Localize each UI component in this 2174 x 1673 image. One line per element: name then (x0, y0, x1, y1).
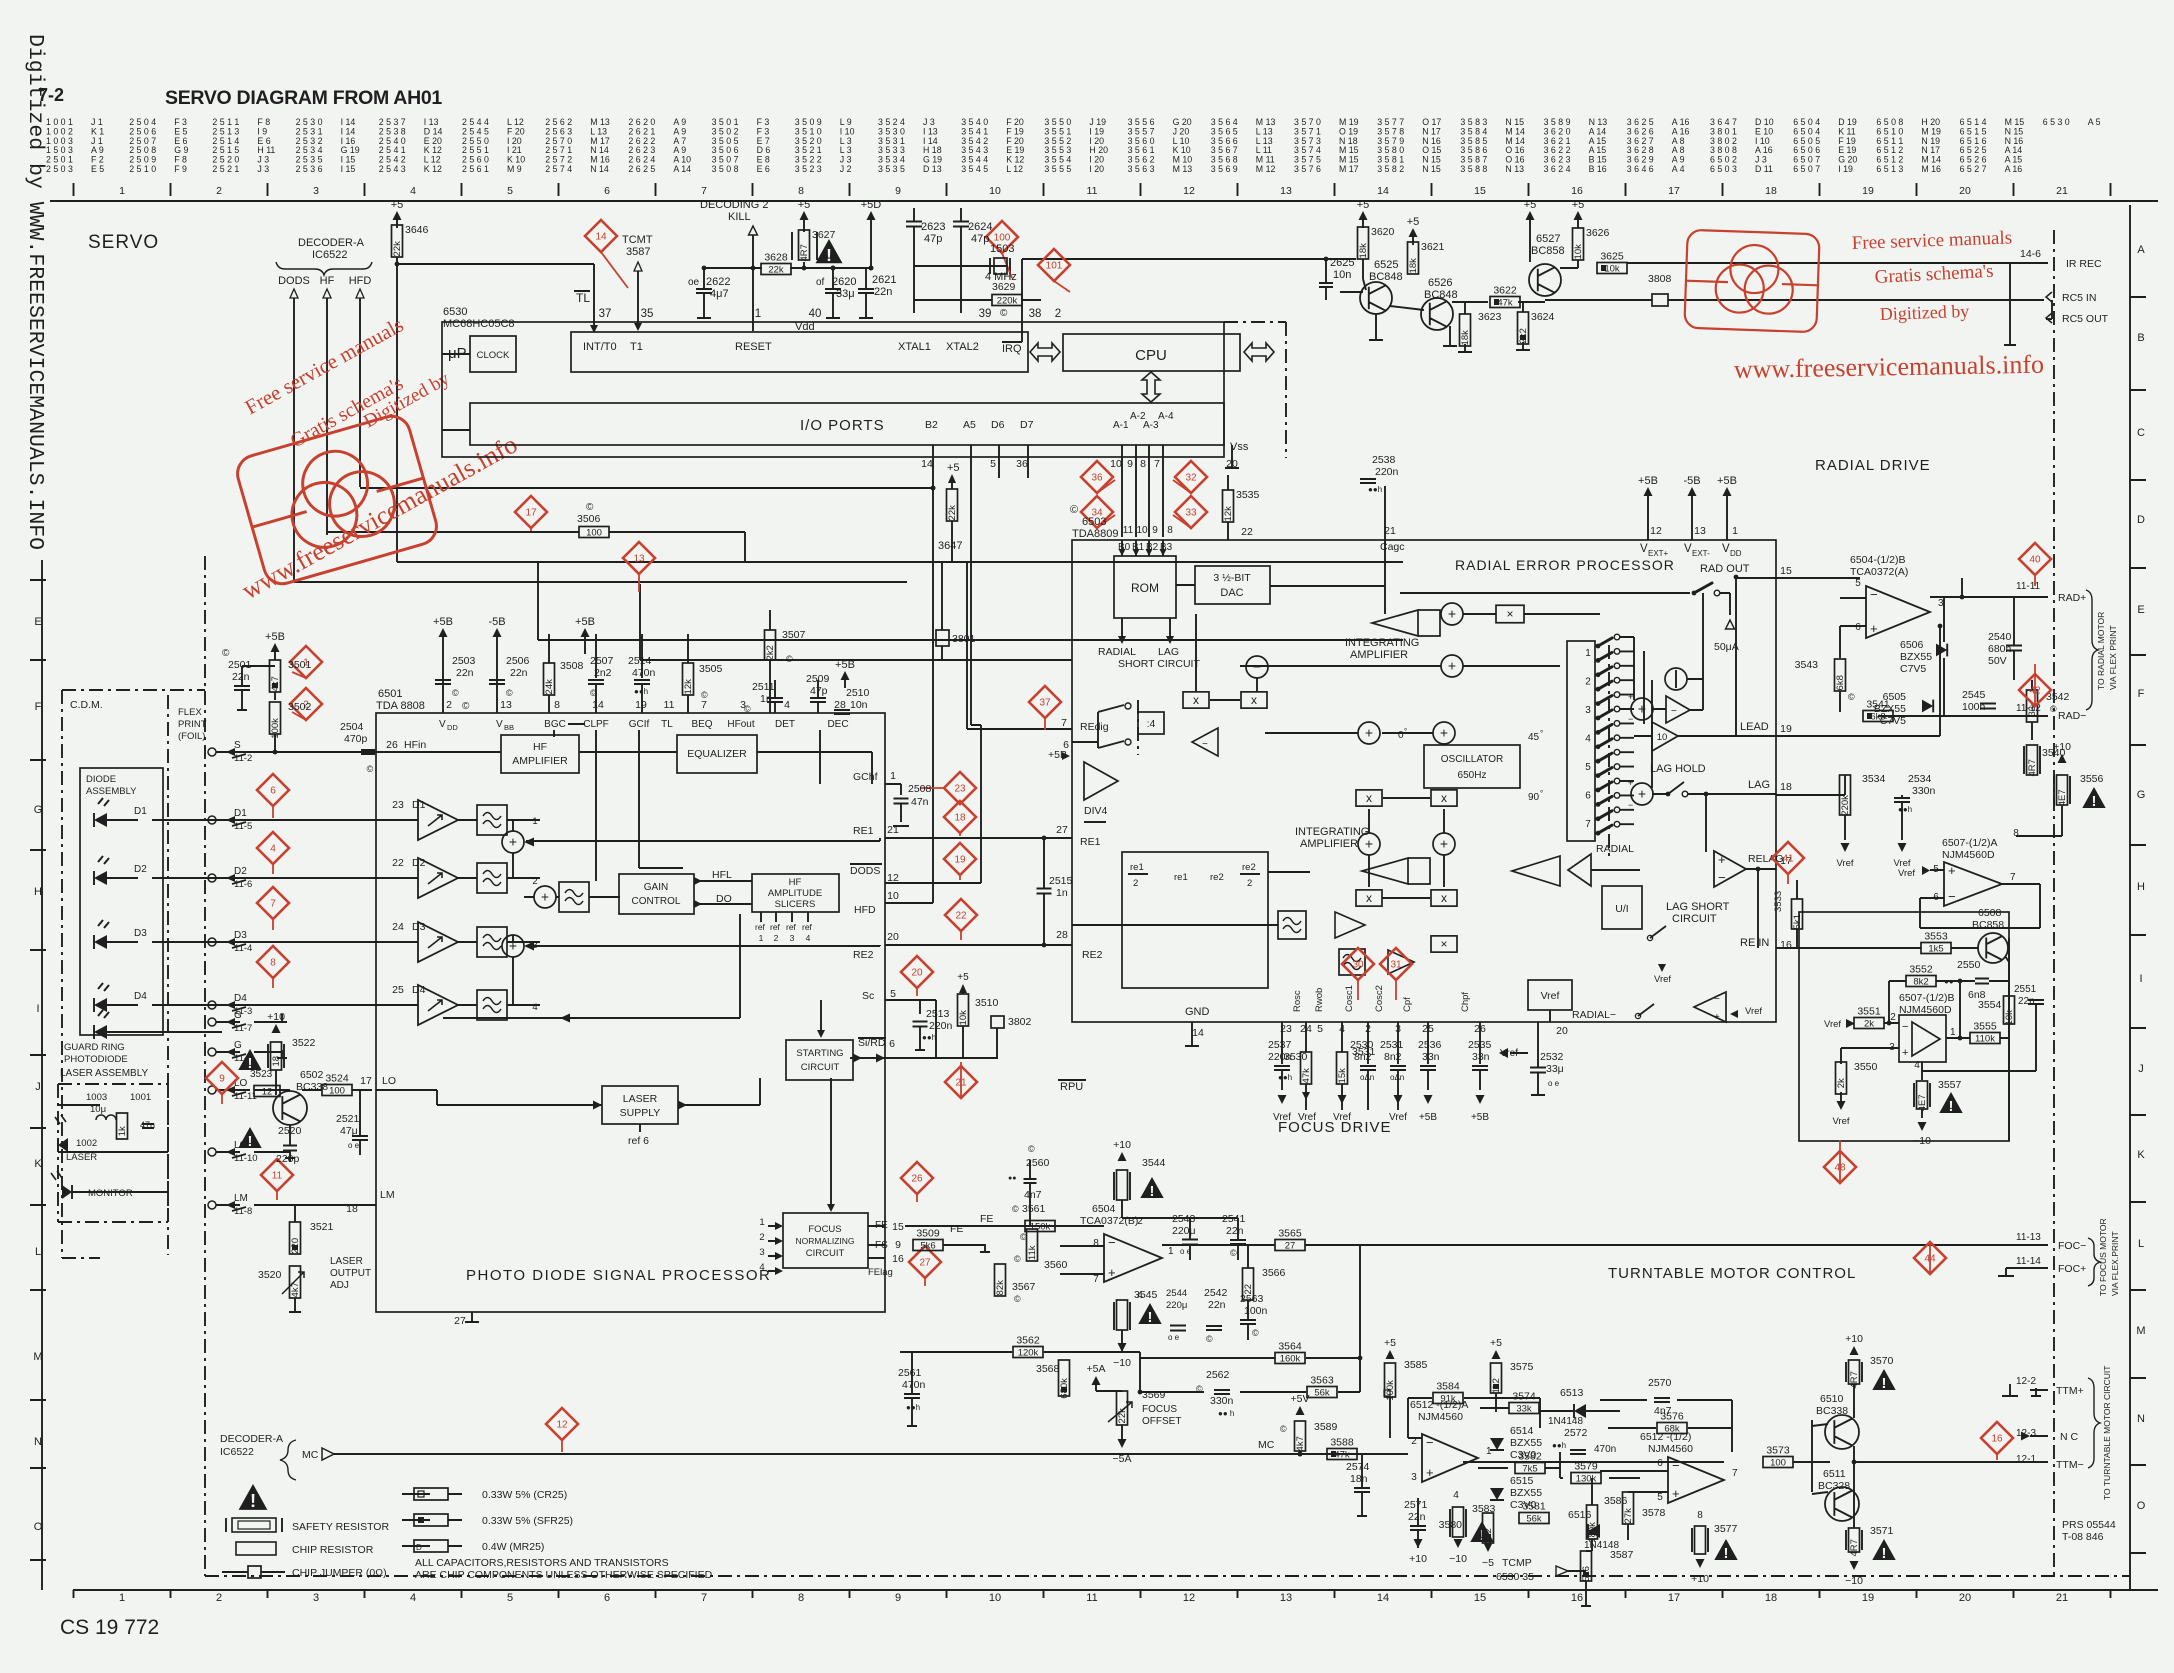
svg-text:+: + (509, 834, 517, 850)
svg-text:2511: 2511 (752, 681, 775, 693)
svg-text:2560: 2560 (1026, 1157, 1050, 1169)
svg-text:11-11: 11-11 (2016, 581, 2041, 592)
svg-text:3581: 3581 (1522, 1501, 1546, 1513)
svg-text:D: D (416, 1543, 422, 1552)
svg-text:©: © (222, 648, 230, 659)
svg-text:7: 7 (270, 899, 276, 910)
svg-text:RC5 IN: RC5 IN (2062, 292, 2096, 304)
svg-text:2: 2 (1055, 308, 1061, 320)
svg-text:6515: 6515 (1510, 1475, 1534, 1487)
svg-text:11-14: 11-14 (2016, 1256, 2041, 1267)
svg-text:+: + (1638, 786, 1646, 802)
svg-text:47n: 47n (911, 796, 929, 808)
svg-text:10: 10 (1110, 458, 1122, 470)
svg-text:16: 16 (1991, 1434, 2003, 1445)
svg-text:1003: 1003 (86, 1092, 107, 1103)
svg-text:16: 16 (1571, 1592, 1583, 1604)
svg-text:3802: 3802 (1008, 1016, 1032, 1028)
svg-text:3587: 3587 (626, 246, 650, 258)
svg-text:10: 10 (1136, 525, 1148, 536)
svg-text:11-13: 11-13 (2016, 1232, 2041, 1243)
svg-text:3621: 3621 (1421, 241, 1445, 253)
svg-text:11k: 11k (1027, 1245, 1038, 1260)
svg-text:©: © (462, 701, 470, 712)
svg-text:DECODER-A: DECODER-A (298, 237, 365, 249)
svg-text:9: 9 (895, 1239, 901, 1251)
svg-text:4n7: 4n7 (1024, 1189, 1042, 1201)
svg-text:+: + (1628, 692, 1633, 702)
svg-text:18: 18 (346, 1203, 358, 1215)
svg-text:2: 2 (774, 933, 779, 943)
svg-text:10: 10 (989, 1592, 1001, 1604)
svg-text:+: + (1718, 852, 1726, 867)
svg-text:1: 1 (759, 1217, 764, 1228)
svg-text:PHOTODIODE: PHOTODIODE (64, 1054, 128, 1065)
svg-text:3 5 4 5: 3 5 4 5 (961, 164, 988, 174)
svg-text:LAG SHORT: LAG SHORT (1666, 901, 1730, 913)
svg-text:I/O PORTS: I/O PORTS (800, 417, 885, 434)
svg-text:SUPPLY: SUPPLY (620, 1107, 661, 1119)
svg-text:D3: D3 (134, 928, 147, 939)
svg-text:CIRCUIT: CIRCUIT (806, 1248, 845, 1259)
svg-text:19: 19 (1780, 723, 1792, 735)
svg-text:INTEGRATING: INTEGRATING (1345, 637, 1419, 649)
svg-text:10: 10 (887, 890, 899, 902)
svg-text:2622: 2622 (706, 276, 730, 288)
svg-text:3 5 6 3: 3 5 6 3 (1128, 164, 1155, 174)
svg-text:TTM−: TTM− (2056, 1459, 2084, 1471)
svg-text:3 6 4 6: 3 6 4 6 (1627, 164, 1654, 174)
svg-text:REdig: REdig (1080, 721, 1109, 733)
svg-text:8: 8 (1140, 458, 1146, 470)
svg-text:●●: ●● (1944, 977, 1954, 986)
svg-text:KILL: KILL (728, 211, 751, 223)
svg-text:3: 3 (1395, 1023, 1401, 1035)
svg-text:28: 28 (834, 699, 846, 711)
svg-text:!: ! (1150, 1183, 1155, 1200)
svg-text:RE1: RE1 (1080, 836, 1101, 848)
svg-text:J: J (2138, 1063, 2144, 1075)
svg-text:μP: μP (448, 345, 467, 362)
svg-text:NJM4560: NJM4560 (1648, 1443, 1693, 1455)
svg-text:4k7: 4k7 (1295, 1436, 1306, 1451)
svg-text:+5: +5 (1572, 199, 1585, 211)
svg-text:D6: D6 (991, 419, 1005, 431)
svg-text:HF: HF (533, 741, 547, 753)
svg-text:IRQ: IRQ (1002, 343, 1022, 355)
svg-text:FS: FS (875, 1240, 888, 1251)
svg-text:J 3: J 3 (257, 164, 269, 174)
svg-text:HF: HF (789, 877, 802, 888)
svg-text:3561: 3561 (1022, 1203, 1046, 1215)
svg-text:3584: 3584 (1436, 1381, 1460, 1393)
svg-text:91k: 91k (1440, 1394, 1456, 1405)
svg-text:www.freeservicemanuals.info: www.freeservicemanuals.info (1734, 350, 2045, 384)
svg-text:14: 14 (592, 699, 604, 711)
svg-text:IC6522: IC6522 (220, 1446, 254, 1458)
svg-text:HF: HF (320, 275, 335, 287)
svg-text:K: K (34, 1158, 42, 1170)
svg-text:3502: 3502 (288, 701, 312, 713)
svg-text:AMPLIFIER: AMPLIFIER (1350, 649, 1408, 661)
svg-text:47p: 47p (971, 233, 989, 245)
svg-text:+: + (1714, 1012, 1720, 1023)
svg-text:1: 1 (119, 185, 125, 197)
svg-text:23: 23 (392, 799, 404, 811)
svg-text:47p: 47p (810, 685, 828, 697)
svg-text:MC: MC (1258, 1439, 1275, 1451)
svg-text:2501: 2501 (228, 659, 252, 671)
svg-text:DODS: DODS (278, 275, 310, 287)
svg-text:2k2: 2k2 (765, 645, 776, 660)
svg-text:11: 11 (1086, 1592, 1097, 1604)
svg-text:FOCUS: FOCUS (808, 1224, 841, 1235)
svg-text:D2: D2 (134, 864, 147, 875)
svg-text:CONTROL: CONTROL (632, 896, 681, 907)
svg-text:11-7: 11-7 (234, 1023, 252, 1034)
svg-text:CPU: CPU (1135, 347, 1167, 364)
svg-text:Vref: Vref (1824, 1019, 1841, 1030)
svg-text:DAC: DAC (1220, 587, 1243, 599)
svg-text:22n: 22n (874, 286, 892, 298)
svg-text:22n: 22n (2018, 996, 2035, 1007)
svg-text:5: 5 (507, 185, 513, 197)
svg-text:6501: 6501 (378, 688, 402, 700)
svg-text:VIA FLEX PRINT: VIA FLEX PRINT (2108, 625, 2118, 690)
svg-text:220: 220 (290, 1238, 301, 1254)
svg-text:oΔn: oΔn (1360, 1073, 1374, 1082)
svg-text:CS 19 772: CS 19 772 (60, 1616, 159, 1639)
svg-text:©: © (1020, 1232, 1027, 1242)
svg-text:1503: 1503 (990, 243, 1014, 255)
svg-text:2542: 2542 (1204, 1287, 1228, 1299)
svg-text:33n: 33n (1422, 1051, 1440, 1063)
svg-text:IC6522: IC6522 (312, 249, 347, 261)
svg-text:FE: FE (950, 1223, 963, 1235)
svg-text:3801: 3801 (952, 633, 976, 645)
svg-text:20: 20 (1226, 458, 1238, 470)
svg-text:x: x (1193, 693, 1199, 707)
svg-text:BZX55: BZX55 (1510, 1487, 1542, 1499)
svg-text:25: 25 (392, 984, 404, 996)
svg-text:2621: 2621 (872, 274, 896, 286)
svg-text:3506: 3506 (577, 513, 601, 525)
svg-text:7: 7 (701, 185, 707, 197)
svg-text:×: × (1506, 607, 1513, 621)
svg-text:LAG: LAG (1748, 779, 1770, 791)
svg-text:RADIAL: RADIAL (1098, 646, 1136, 658)
svg-text:2: 2 (759, 1232, 764, 1243)
svg-text:180k: 180k (1587, 1522, 1598, 1543)
svg-text:8: 8 (554, 699, 560, 711)
svg-text:-5B: -5B (1683, 475, 1700, 487)
svg-text:7: 7 (2010, 872, 2016, 883)
svg-text:ref: ref (786, 922, 797, 932)
svg-text:3585: 3585 (1404, 1359, 1428, 1371)
svg-text:36: 36 (1016, 458, 1028, 470)
svg-text:4: 4 (1914, 1060, 1920, 1071)
svg-text:1: 1 (759, 933, 764, 943)
svg-text:re2: re2 (1242, 862, 1256, 873)
svg-text:FLEX: FLEX (178, 707, 202, 718)
svg-text:130k: 130k (1576, 1474, 1597, 1485)
svg-text:6504: 6504 (1092, 1203, 1116, 1215)
svg-text:2545: 2545 (1962, 689, 1986, 701)
svg-text:3530: 3530 (1284, 1051, 1308, 1063)
svg-text:©: © (786, 654, 793, 664)
svg-text:2521: 2521 (336, 1113, 360, 1125)
svg-text:680k: 680k (1059, 1378, 1070, 1399)
svg-text:12k: 12k (1223, 506, 1234, 522)
svg-text:17: 17 (1668, 185, 1680, 197)
svg-text:OUTPUT: OUTPUT (330, 1268, 371, 1279)
svg-text:2550: 2550 (1957, 959, 1981, 971)
svg-text:330n: 330n (1912, 785, 1936, 797)
svg-text:6: 6 (604, 185, 610, 197)
svg-text:+10: +10 (1409, 1553, 1427, 1565)
svg-text:+5: +5 (1490, 1337, 1502, 1349)
svg-text:2 5 0 3: 2 5 0 3 (46, 164, 73, 174)
svg-text:33μ: 33μ (1546, 1063, 1564, 1075)
svg-text:RAD−: RAD− (2058, 710, 2086, 722)
svg-text:3551: 3551 (1857, 1006, 1881, 1018)
svg-text:C: C (2137, 427, 2145, 439)
svg-text:B: B (2137, 332, 2144, 344)
svg-text:100: 100 (586, 528, 602, 539)
svg-text:4: 4 (410, 185, 416, 197)
svg-text:100n: 100n (1244, 1305, 1268, 1317)
svg-text:7: 7 (1732, 1468, 1738, 1479)
svg-text:3520: 3520 (258, 1269, 282, 1281)
svg-text:2532: 2532 (1540, 1051, 1564, 1063)
svg-text:C.D.M.: C.D.M. (70, 699, 103, 711)
svg-text:©: © (744, 704, 751, 714)
svg-text:x: x (1366, 891, 1372, 905)
svg-text:GCIf: GCIf (629, 719, 650, 730)
svg-text:10μ: 10μ (90, 1104, 106, 1115)
svg-text:18: 18 (954, 813, 966, 824)
svg-text:OFFSET: OFFSET (1142, 1416, 1181, 1427)
svg-text:3501: 3501 (288, 659, 312, 671)
svg-text:3508: 3508 (560, 660, 584, 672)
svg-text:+5B: +5B (1717, 475, 1737, 487)
svg-text:oΔn: oΔn (1390, 1073, 1404, 1082)
svg-text:3620: 3620 (1371, 226, 1395, 238)
svg-text:6530: 6530 (443, 306, 467, 318)
svg-text:TTM+: TTM+ (2056, 1385, 2084, 1397)
svg-text:33μ: 33μ (836, 288, 855, 300)
svg-text:12-1: 12-1 (2016, 1454, 2036, 1465)
svg-text:8n2: 8n2 (1354, 1051, 1372, 1063)
svg-text:2 5 7 4: 2 5 7 4 (545, 164, 572, 174)
svg-text:27: 27 (1056, 824, 1068, 836)
svg-text:+: + (1108, 1265, 1116, 1280)
svg-text:I 15: I 15 (341, 164, 356, 174)
svg-text:6 5 2 7: 6 5 2 7 (1960, 164, 1987, 174)
svg-text:4: 4 (1585, 734, 1591, 745)
svg-text:o e: o e (1180, 1247, 1192, 1256)
svg-text:2 6 2 5: 2 6 2 5 (628, 164, 655, 174)
svg-text:HFout: HFout (727, 719, 754, 730)
svg-text:0.33W 5% (SFR25): 0.33W 5% (SFR25) (482, 1515, 573, 1527)
svg-text:12: 12 (1183, 185, 1195, 197)
svg-text:TL: TL (661, 719, 673, 730)
svg-text:5: 5 (1933, 864, 1939, 875)
svg-text:PRINT: PRINT (178, 719, 207, 730)
svg-text:−10: −10 (1449, 1553, 1467, 1565)
svg-text:3578: 3578 (1642, 1507, 1666, 1519)
svg-text:L 12: L 12 (1006, 164, 1023, 174)
svg-text:680n: 680n (1988, 643, 2012, 655)
svg-text:10k: 10k (958, 1010, 969, 1026)
svg-text:6504-(1/2)B: 6504-(1/2)B (1850, 554, 1905, 566)
svg-text:E 6: E 6 (757, 164, 770, 174)
svg-text:17: 17 (360, 1075, 372, 1087)
svg-text:ref: ref (770, 922, 781, 932)
svg-text:4: 4 (532, 1002, 537, 1013)
svg-text:3570: 3570 (1870, 1355, 1894, 1367)
svg-text:+: + (1870, 621, 1878, 636)
svg-text:37: 37 (599, 308, 612, 320)
svg-text:G: G (34, 804, 43, 816)
svg-text:19: 19 (1862, 1592, 1874, 1604)
svg-text:U/I: U/I (1615, 903, 1628, 915)
svg-text:B 16: B 16 (1589, 164, 1607, 174)
svg-text:Si/RD: Si/RD (858, 1037, 886, 1049)
svg-text:I: I (2139, 973, 2142, 985)
svg-text:°: ° (1404, 727, 1407, 736)
svg-text:3563: 3563 (1310, 1375, 1334, 1387)
svg-text:3543: 3543 (1795, 659, 1819, 671)
svg-text:FOC+: FOC+ (2058, 1263, 2086, 1275)
svg-text:LASER: LASER (66, 1152, 97, 1163)
svg-text:330n: 330n (1210, 1395, 1234, 1407)
svg-text:MONITOR: MONITOR (88, 1188, 133, 1199)
svg-text:1: 1 (1486, 1446, 1492, 1457)
svg-text:+5B: +5B (265, 631, 285, 643)
svg-text:ADJ: ADJ (330, 1280, 349, 1291)
svg-text:1: 1 (1732, 525, 1738, 537)
svg-text:6k8: 6k8 (1835, 675, 1846, 690)
svg-text:18n: 18n (1350, 1473, 1368, 1485)
svg-text:2541: 2541 (1222, 1213, 1246, 1225)
svg-text:!: ! (1148, 1309, 1153, 1326)
svg-text:6 5 0 7: 6 5 0 7 (1793, 164, 1820, 174)
svg-text:31: 31 (1390, 960, 1402, 971)
svg-text:19: 19 (1862, 185, 1874, 197)
svg-text:RAD+: RAD+ (2058, 592, 2086, 604)
svg-text:−10: −10 (1845, 1575, 1863, 1587)
svg-text:ref 6: ref 6 (628, 1135, 649, 1147)
svg-text:16: 16 (1780, 939, 1792, 951)
svg-text:3587: 3587 (1610, 1549, 1634, 1561)
svg-text:1: 1 (890, 770, 896, 782)
svg-text:2562: 2562 (1206, 1369, 1230, 1381)
svg-text:10n: 10n (1333, 269, 1351, 281)
svg-text:D1: D1 (234, 808, 247, 819)
svg-text:TDA 8808: TDA 8808 (376, 700, 425, 712)
svg-text:5: 5 (1855, 578, 1861, 589)
svg-text:36: 36 (1091, 473, 1103, 484)
svg-text:AMPLITUDE: AMPLITUDE (768, 888, 822, 899)
svg-text:2 5 3 6: 2 5 3 6 (296, 164, 323, 174)
svg-text:27: 27 (454, 1315, 466, 1327)
svg-text:12k: 12k (683, 679, 694, 695)
svg-text:©: © (506, 688, 513, 698)
svg-text:19: 19 (635, 699, 647, 711)
svg-text:+10: +10 (1845, 1333, 1863, 1345)
svg-text:11: 11 (1123, 525, 1134, 536)
svg-text:1n: 1n (1056, 887, 1068, 899)
svg-text:3808: 3808 (1648, 273, 1672, 285)
svg-text:45: 45 (1528, 732, 1540, 743)
svg-text:3 5 3 5: 3 5 3 5 (878, 164, 905, 174)
svg-text:6516: 6516 (1568, 1509, 1592, 1521)
svg-text:3554: 3554 (1978, 999, 2002, 1011)
svg-text:4: 4 (806, 933, 811, 943)
svg-text:47μ: 47μ (340, 1125, 358, 1137)
svg-text:+5D: +5D (861, 199, 882, 211)
svg-text:+: + (1440, 725, 1448, 741)
svg-text:BC338: BC338 (296, 1081, 328, 1093)
svg-text:1k2: 1k2 (1491, 1378, 1502, 1393)
svg-text:-5B: -5B (488, 616, 505, 628)
svg-text:2: 2 (446, 699, 452, 711)
svg-text:20: 20 (1556, 1025, 1568, 1037)
svg-text:8: 8 (270, 958, 276, 969)
svg-text:XTAL2: XTAL2 (946, 341, 979, 353)
svg-text:33: 33 (1185, 508, 1197, 519)
svg-text:●●h: ●●h (906, 1403, 920, 1412)
svg-text:oe: oe (688, 277, 700, 288)
svg-text:9: 9 (1152, 525, 1158, 536)
svg-text:22: 22 (1241, 526, 1253, 538)
svg-text:N C: N C (2060, 1431, 2079, 1443)
svg-text:DO: DO (716, 893, 732, 905)
svg-text:2: 2 (216, 1592, 222, 1604)
svg-text:150k: 150k (1030, 1222, 1051, 1233)
svg-text:0.4W (MR25): 0.4W (MR25) (482, 1541, 544, 1553)
svg-text:−: − (1202, 739, 1208, 750)
svg-text:6: 6 (1657, 1458, 1663, 1469)
svg-text:2 5 2 1: 2 5 2 1 (212, 164, 239, 174)
svg-text:28: 28 (1056, 929, 1068, 941)
svg-text:CIRCUIT: CIRCUIT (1672, 913, 1717, 925)
svg-text:FElag: FElag (868, 1267, 893, 1278)
svg-text:3 5 5 5: 3 5 5 5 (1044, 164, 1071, 174)
svg-text:DECODER-A: DECODER-A (220, 1433, 283, 1445)
svg-text:N: N (34, 1436, 42, 1448)
svg-text:18: 18 (271, 1056, 282, 1067)
svg-text:©: © (586, 502, 594, 513)
svg-text:2509: 2509 (806, 673, 830, 685)
svg-text:2507: 2507 (590, 655, 614, 667)
svg-text:RC5 OUT: RC5 OUT (2062, 313, 2109, 325)
svg-text:FOCUS DRIVE: FOCUS DRIVE (1278, 1119, 1392, 1136)
svg-text:1: 1 (1585, 648, 1591, 659)
svg-text:0.33W 5% (CR25): 0.33W 5% (CR25) (482, 1489, 567, 1501)
svg-text:−: − (1714, 994, 1720, 1005)
svg-text:o e: o e (1548, 1079, 1560, 1088)
svg-text:T-08 846: T-08 846 (2062, 1531, 2104, 1543)
svg-text:HFD: HFD (854, 904, 876, 916)
svg-text:re1: re1 (1130, 862, 1144, 873)
svg-text:BC328: BC328 (1818, 1480, 1850, 1492)
svg-text:IR REC: IR REC (2066, 258, 2102, 270)
svg-text:15: 15 (1474, 1592, 1486, 1604)
svg-text:32: 32 (1185, 473, 1197, 484)
svg-text:+: + (1672, 1486, 1680, 1501)
